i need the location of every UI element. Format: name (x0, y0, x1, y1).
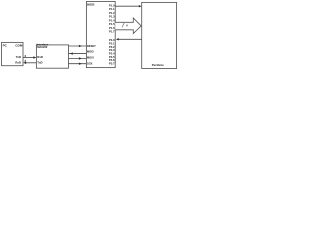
arrowhead into PC box (23, 62, 26, 64)
bus arrow (4 lines) (115, 18, 141, 34)
svg-text:TxD: TxD (37, 61, 42, 65)
svg-text:P1.7: P1.7 (109, 30, 115, 34)
peripheral box (142, 2, 177, 68)
arrowhead into peripheral (139, 5, 142, 7)
arrowhead RESET (79, 45, 82, 47)
arrowhead MOSI (79, 57, 82, 59)
svg-text:MISO: MISO (87, 50, 94, 54)
PC COM box (2, 42, 24, 65)
wire SCK (interface to micro) (69, 63, 87, 65)
arrowhead MISO (70, 52, 73, 54)
wire TxD (PC to interface) (23, 57, 34, 59)
wire RxD (interface to PC) (26, 62, 36, 64)
bus width slash (122, 23, 124, 28)
svg-text:RxD: RxD (15, 60, 21, 64)
svg-text:MAX232: MAX232 (37, 45, 48, 49)
svg-text:MOSI: MOSI (87, 56, 94, 60)
wire MISO (micro to interface) (69, 53, 87, 55)
svg-text:TxD: TxD (16, 55, 21, 59)
wire RESET (interface to micro) (69, 45, 87, 47)
svg-text:89S52: 89S52 (87, 2, 95, 6)
svg-text:RESET: RESET (87, 44, 96, 48)
svg-text:SCK: SCK (87, 61, 93, 65)
wire peripheral to P3.x (118, 38, 142, 40)
svg-text:Periferie: Periferie (152, 63, 164, 67)
wire P1.0 to peripheral (115, 5, 139, 7)
svg-text:RxD: RxD (37, 55, 43, 59)
arrowhead into micro (116, 38, 119, 40)
arrowhead into interface (33, 56, 36, 58)
interface box MAX232 (36, 45, 68, 68)
svg-text:P3.7: P3.7 (109, 61, 115, 65)
arrowhead SCK (79, 63, 82, 65)
svg-text:COM: COM (15, 44, 23, 48)
microcontroller 89S52 box (86, 2, 115, 68)
wire MOSI (interface to micro) (69, 58, 87, 60)
